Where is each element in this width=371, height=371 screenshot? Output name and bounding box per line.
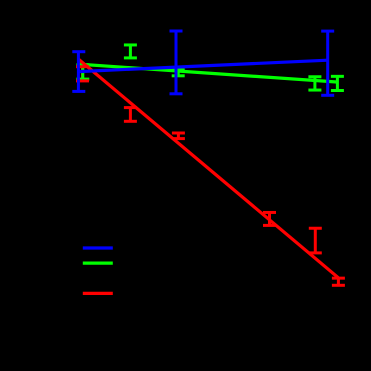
red fit line: [78, 59, 338, 278]
red errorbar R1 caps: [76, 67, 89, 81]
green errorbar G5: [331, 76, 344, 90]
green errorbar G1: [76, 65, 89, 79]
red errorbar R4: [263, 212, 276, 225]
legend: [83, 248, 113, 293]
red series: [76, 59, 345, 285]
red errorbar R1 vertical bar (lowest layer): [81, 67, 84, 81]
red errorbar R5: [309, 228, 322, 253]
blue errorbar B1: [72, 52, 85, 92]
green fit line: [78, 64, 338, 82]
red errorbar R2: [124, 108, 137, 122]
green errorbar G3: [172, 70, 185, 76]
blue errorbar B3: [321, 31, 334, 95]
legend green swatch: [83, 262, 113, 265]
red errorbar R3: [172, 133, 185, 139]
legend red swatch: [83, 292, 113, 295]
legend blue swatch: [83, 246, 113, 249]
green series: [76, 45, 344, 91]
green errorbar G2: [124, 45, 137, 58]
blue series (top layer): [72, 31, 334, 95]
green errorbar G4: [308, 77, 321, 90]
blue fit line: [78, 60, 327, 71]
red errorbar R6: [332, 278, 345, 285]
blue errorbar B2: [170, 31, 183, 94]
